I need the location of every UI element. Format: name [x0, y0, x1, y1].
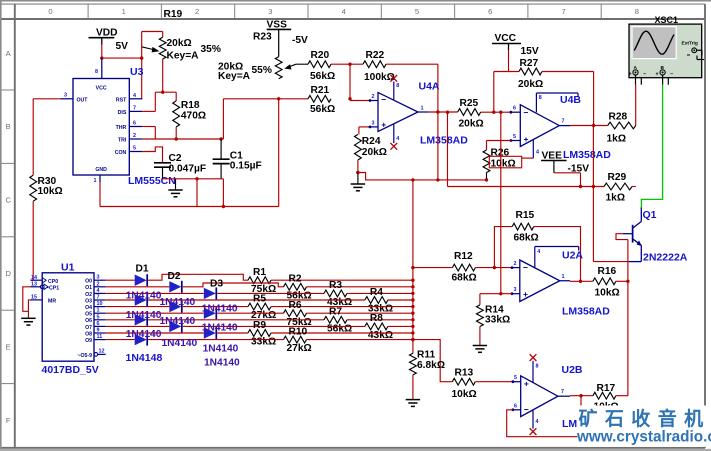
svg-text:R28: R28: [609, 111, 628, 122]
ground under R11: [406, 399, 420, 401]
resistor R24 20k to ground: [358, 127, 360, 134]
svg-text:THR: THR: [116, 125, 127, 131]
wire scope B to Q1 collector (green): [641, 85, 662, 208]
svg-text:6: 6: [488, 7, 492, 16]
ground under R24: [357, 173, 359, 185]
wire R20-R22 node: [331, 63, 363, 65]
U1 input pins CP0 ~CP1 MR: [31, 279, 43, 281]
svg-text:27kΩ: 27kΩ: [287, 343, 312, 354]
wire U1 O5 to D6: [106, 312, 204, 314]
U4B power stub pin4 to VEE: [532, 140, 534, 159]
watermark crystalradio: [578, 406, 711, 447]
wire R24 node to mid rail: [358, 173, 487, 180]
resistor R21 56k: [308, 95, 331, 102]
svg-text:VEE: VEE: [542, 150, 563, 161]
svg-text:35%: 35%: [201, 44, 221, 55]
wire U1 O2 to D3: [106, 292, 204, 294]
resistor R29 1k: [604, 183, 632, 190]
svg-text:1: 1: [94, 178, 97, 184]
svg-text:R3: R3: [329, 280, 342, 291]
svg-text:LM358AD: LM358AD: [563, 149, 611, 161]
label box around R26 value: [489, 156, 521, 168]
wire VEE to net: [554, 172, 581, 174]
wire R27 to U4B output: [542, 71, 594, 73]
svg-text:O3: O3: [85, 298, 92, 304]
resistor R27 20k: [519, 68, 542, 75]
svg-text:XSC1: XSC1: [655, 15, 679, 25]
diode D5 1N4140: [169, 301, 181, 312]
svg-text:1kΩ: 1kΩ: [606, 192, 626, 203]
svg-text:6: 6: [514, 403, 517, 409]
svg-text:U2B: U2B: [562, 364, 583, 376]
node bus row 0: [411, 279, 414, 282]
wire ~CP1 and MR to ground: [23, 287, 31, 312]
svg-text:D: D: [5, 269, 11, 278]
svg-text:CON: CON: [115, 150, 127, 156]
resistor R11 6.8k: [412, 340, 414, 354]
wire U1 O7 to D8: [106, 325, 170, 327]
svg-text:2: 2: [514, 261, 517, 267]
svg-text:−: −: [523, 263, 528, 273]
svg-text:O2: O2: [85, 292, 92, 298]
svg-text:R11: R11: [417, 349, 435, 360]
R23 wiper arrow: [296, 63, 308, 65]
svg-text:R10: R10: [289, 326, 308, 337]
svg-text:O9: O9: [85, 338, 92, 344]
resistor R7 56kΩ: [324, 316, 347, 323]
svg-text:~O5-9: ~O5-9: [77, 353, 92, 359]
wire D4 to R4: [148, 299, 365, 301]
svg-text:U3: U3: [130, 66, 144, 78]
diode D3 1N4140: [204, 288, 216, 299]
svg-text:A: A: [634, 65, 638, 71]
resistor R25 20k: [458, 109, 481, 116]
wire R4 to summing bus: [388, 299, 413, 301]
svg-text:7: 7: [561, 389, 564, 395]
svg-text:4: 4: [537, 249, 540, 255]
svg-text:55%: 55%: [252, 65, 272, 76]
resistor R26 10k: [487, 140, 511, 142]
svg-text:10kΩ: 10kΩ: [452, 389, 477, 400]
svg-text:10: 10: [97, 301, 103, 307]
svg-text:U2A: U2A: [562, 250, 583, 262]
U4B input stubs: [511, 111, 520, 113]
svg-text:LM358AD: LM358AD: [420, 135, 468, 147]
resistor R9 33kΩ: [248, 330, 271, 337]
svg-text:2N2222A: 2N2222A: [643, 251, 688, 263]
svg-text:7: 7: [97, 295, 100, 301]
svg-text:R21: R21: [311, 85, 330, 96]
svg-text:33kΩ: 33kΩ: [251, 337, 276, 348]
svg-text:B: B: [6, 122, 11, 131]
svg-text:R29: R29: [608, 172, 627, 183]
diode D9 1N4140: [204, 327, 216, 338]
resistor R6 75kΩ: [284, 310, 307, 317]
svg-text:R17: R17: [597, 383, 616, 394]
svg-text:2: 2: [97, 281, 100, 287]
svg-text:O5: O5: [85, 312, 92, 318]
wire D1 to R1 (jog up): [148, 274, 248, 280]
resistor R5 27kΩ: [248, 303, 271, 310]
svg-text:1N4140: 1N4140: [204, 358, 240, 369]
svg-text:VCC: VCC: [96, 85, 107, 91]
power VCC 15V: [492, 43, 521, 45]
svg-text:4: 4: [133, 93, 136, 99]
wire R28 to scope channel A: [635, 85, 637, 126]
wire D6 to R6: [217, 312, 283, 314]
wire D7 to R7: [148, 319, 324, 321]
svg-text:+: +: [381, 120, 386, 130]
svg-text:−: −: [524, 404, 529, 414]
svg-text:MR: MR: [48, 299, 56, 305]
wire base notch to R16/R17 bus: [616, 234, 628, 240]
svg-text:1N4140: 1N4140: [126, 310, 162, 321]
svg-text:14: 14: [31, 275, 37, 281]
svg-text:E: E: [6, 342, 11, 351]
svg-text:1: 1: [97, 308, 100, 314]
svg-text:8: 8: [95, 69, 98, 75]
svg-text:12: 12: [99, 349, 105, 355]
power VSS -5V: [267, 28, 292, 30]
svg-text:矿石收音机: 矿石收音机: [579, 407, 711, 430]
svg-text:3: 3: [268, 7, 272, 16]
svg-text:15: 15: [31, 295, 37, 301]
svg-text:R7: R7: [329, 307, 342, 318]
resistor R28 1k: [608, 122, 636, 129]
U2A output: [560, 280, 570, 282]
base stub: [623, 233, 633, 235]
sheet border frame: [0, 0, 711, 2]
svg-text:R8: R8: [370, 313, 383, 324]
svg-text:F: F: [6, 416, 11, 425]
svg-text:20kΩ: 20kΩ: [167, 38, 192, 49]
node bus row 5: [411, 312, 414, 315]
svg-text:B: B: [661, 65, 665, 71]
svg-text:8: 8: [635, 7, 639, 16]
svg-text:1kΩ: 1kΩ: [607, 133, 627, 144]
svg-text:5: 5: [513, 134, 516, 140]
resistor R30 10k: [30, 175, 37, 201]
U2A power stub pin8: [534, 247, 536, 268]
svg-text:20kΩ: 20kΩ: [362, 147, 387, 158]
svg-text:1N4140: 1N4140: [203, 343, 239, 354]
svg-text:R6: R6: [289, 300, 302, 311]
svg-text:−: −: [381, 95, 386, 105]
svg-text:D3: D3: [210, 278, 223, 289]
svg-text:VDD: VDD: [96, 28, 118, 39]
wire R22 feedback to U4A output: [386, 63, 438, 65]
svg-text:R13: R13: [455, 367, 474, 378]
svg-text:2: 2: [195, 7, 199, 16]
svg-text:9: 9: [97, 328, 100, 334]
wire THR tied to TRI: [142, 126, 155, 128]
svg-text:4017BD_5V: 4017BD_5V: [42, 364, 99, 376]
op counter U1 4017BD_5V box: [42, 273, 94, 361]
svg-text:R22: R22: [366, 50, 385, 61]
wire U1 O6 to D7: [106, 319, 135, 321]
node bus row 6: [411, 318, 414, 321]
wire OUT of 555 down left: [33, 98, 60, 100]
svg-text:LM555CN: LM555CN: [128, 175, 176, 187]
wire summing bus vertical: [412, 180, 414, 340]
U4A power pin stubs with X: [393, 82, 395, 101]
wire U2B feedback loop: [507, 396, 581, 437]
svg-text:1N4140: 1N4140: [160, 316, 196, 327]
svg-text:5: 5: [415, 7, 419, 16]
node bus row 8: [411, 331, 414, 334]
svg-text:10kΩ: 10kΩ: [38, 186, 63, 197]
ground under C2: [175, 179, 177, 190]
wire D9 to R9: [217, 332, 248, 334]
diode D8 1N4140: [169, 321, 181, 332]
wire D3 to R3: [217, 292, 324, 294]
svg-text:R24: R24: [362, 136, 381, 147]
wire D8 to R8: [183, 325, 365, 327]
svg-text:6: 6: [133, 121, 136, 127]
wire R23 bottom vertical: [278, 99, 280, 207]
svg-text:O6: O6: [85, 318, 92, 324]
svg-text:R25: R25: [460, 98, 479, 109]
U1 output pin stubs O0-O9: [94, 279, 106, 281]
diode D1 1N4140: [135, 275, 147, 286]
svg-text:R23: R23: [253, 32, 272, 43]
wire R1 to summing bus: [271, 279, 413, 281]
capacitor C2 0.047uF: [154, 162, 171, 164]
svg-text:4: 4: [97, 288, 100, 294]
resistor R10 27kΩ: [284, 336, 307, 343]
svg-text:20kΩ: 20kΩ: [459, 118, 484, 129]
resistor R15 68k feedback: [512, 223, 534, 230]
svg-text:56kΩ: 56kΩ: [310, 71, 335, 82]
wire U1 O0 to D1: [106, 279, 135, 281]
555 right pin stubs: [129, 98, 142, 100]
svg-text:R26: R26: [491, 148, 510, 159]
resistor R22 100k: [363, 61, 386, 68]
svg-text:O1: O1: [85, 285, 92, 291]
svg-text:6: 6: [97, 321, 100, 327]
node bus row 9: [411, 338, 414, 341]
svg-text:O8: O8: [85, 331, 92, 337]
svg-text:R19: R19: [164, 9, 183, 20]
svg-text:3: 3: [97, 275, 100, 281]
U2B output: [558, 395, 570, 397]
svg-text:68kΩ: 68kΩ: [514, 233, 539, 244]
pin 1 GND stub: [99, 175, 101, 182]
wire R19 bottom to DIS/R18 net: [162, 59, 164, 92]
svg-text:68kΩ: 68kΩ: [452, 273, 477, 284]
pin 8 VCC stub: [101, 58, 103, 78]
svg-text:D2: D2: [168, 271, 181, 282]
svg-text:6: 6: [513, 106, 516, 112]
resistor R17 10k: [593, 392, 616, 399]
wire D5 to R5: [183, 306, 248, 308]
wire R9 to summing bus: [271, 332, 413, 334]
svg-text:O7: O7: [85, 325, 92, 331]
svg-text:11: 11: [97, 334, 103, 340]
U4B power stub pin8: [535, 93, 537, 112]
svg-text:R12: R12: [454, 251, 473, 262]
svg-text:1: 1: [421, 106, 424, 112]
svg-text:4: 4: [536, 419, 539, 425]
wire DIS to R18/R19 node: [142, 110, 155, 112]
resistor R13 10k: [452, 378, 475, 385]
svg-text:1N4140: 1N4140: [160, 297, 196, 308]
diode D7 1N4140: [135, 314, 147, 325]
node bus row 7: [411, 325, 414, 328]
svg-text:1N4140: 1N4140: [162, 338, 198, 349]
svg-text:8: 8: [536, 364, 539, 370]
wire R10 to summing bus: [307, 339, 413, 341]
wire CON to C2: [142, 147, 162, 163]
wire bus bottom to R13 branch: [413, 340, 452, 382]
resistor R3 43kΩ: [324, 290, 347, 297]
svg-text:5: 5: [97, 314, 100, 320]
svg-text:OUT: OUT: [77, 98, 89, 104]
svg-text:GND: GND: [95, 167, 107, 173]
power VDD 5V: [89, 37, 115, 39]
svg-text:6.8kΩ: 6.8kΩ: [417, 360, 445, 371]
svg-text:R4: R4: [370, 287, 383, 298]
svg-text:2: 2: [133, 133, 136, 139]
U2B power stubs with X: [532, 361, 534, 382]
svg-text:-5V: -5V: [292, 35, 308, 46]
svg-text:3: 3: [372, 120, 375, 126]
U4B output: [559, 125, 570, 127]
U1 pin ~O5-9 stub: [94, 353, 98, 357]
svg-text:5: 5: [514, 375, 517, 381]
column labels 0-8: [87, 4, 89, 19]
svg-text:0: 0: [48, 7, 52, 16]
svg-text:R15: R15: [516, 210, 535, 221]
svg-text:1: 1: [562, 274, 565, 280]
svg-text:1: 1: [122, 7, 126, 16]
svg-text:Key=A: Key=A: [167, 50, 200, 61]
wire R6 to summing bus: [307, 312, 413, 314]
svg-text:3: 3: [64, 93, 67, 99]
U4A input stubs: [350, 100, 370, 102]
potentiometer R23 20k Key=A 55%: [275, 57, 282, 79]
svg-text:15V: 15V: [521, 46, 539, 57]
U2B input stubs: [513, 381, 521, 383]
node bus row 4: [411, 305, 414, 308]
svg-text:C: C: [5, 196, 11, 205]
svg-text:R16: R16: [598, 266, 617, 277]
svg-text:TRI: TRI: [118, 138, 127, 144]
svg-text:VCC: VCC: [495, 33, 517, 44]
node VDD junction: [100, 56, 103, 59]
svg-text:3: 3: [514, 287, 517, 293]
svg-text:VSS: VSS: [267, 20, 288, 31]
svg-text:D1: D1: [136, 264, 149, 275]
svg-text:R27: R27: [520, 58, 539, 69]
svg-text:1N4140: 1N4140: [126, 291, 162, 302]
wire U2A plus input network: [480, 293, 512, 295]
svg-text:56kΩ: 56kΩ: [310, 104, 335, 115]
svg-text:+: +: [524, 378, 529, 388]
scope waveform: [634, 31, 674, 54]
svg-text:4: 4: [342, 7, 346, 16]
capacitor C1 0.15uF: [220, 139, 222, 159]
diode D10 1N4140: [135, 334, 147, 345]
resistor R1 75kΩ: [248, 277, 271, 284]
diode D6 1N4140: [204, 308, 216, 319]
power VEE -15V: [541, 160, 567, 162]
svg-text:8: 8: [396, 83, 399, 89]
svg-text:R5: R5: [253, 293, 266, 304]
pin 3 OUT stub: [61, 98, 74, 100]
svg-text:DIS: DIS: [118, 110, 127, 116]
wire R25 to U4B inverting input: [481, 111, 511, 113]
svg-text:−: −: [643, 72, 646, 78]
svg-text:470Ω: 470Ω: [181, 110, 206, 121]
svg-text:RST: RST: [116, 97, 127, 103]
svg-text:R9: R9: [253, 320, 266, 331]
scope terminal B: [660, 70, 665, 75]
svg-text:O0: O0: [85, 279, 92, 285]
svg-text:2: 2: [372, 94, 375, 100]
node bus row 3: [411, 298, 414, 301]
U4A output: [418, 111, 428, 113]
resistor R20 56k: [308, 61, 331, 68]
svg-text:R2: R2: [289, 274, 302, 285]
svg-text:U1: U1: [61, 262, 75, 274]
svg-text:Q1: Q1: [643, 209, 657, 221]
svg-text:www.crystalradio.cn: www.crystalradio.cn: [576, 429, 711, 446]
wire R3 to summing bus: [347, 292, 413, 294]
wire R7 to summing bus: [347, 319, 413, 321]
wire R5 to summing bus: [271, 306, 413, 308]
wire output node to R29 row: [447, 112, 449, 186]
svg-text:1N4140: 1N4140: [202, 323, 238, 334]
svg-text:0.15µF: 0.15µF: [230, 160, 262, 171]
svg-text:4: 4: [396, 136, 399, 142]
svg-text:R1: R1: [253, 267, 266, 278]
wire emitter to U4B output net: [593, 261, 628, 263]
wire U1 O4 to D5: [106, 306, 170, 308]
svg-text:O4: O4: [85, 305, 92, 311]
svg-text:+: +: [629, 72, 632, 78]
ground under R14: [473, 345, 487, 347]
svg-text:5V: 5V: [116, 41, 129, 52]
svg-text:5: 5: [133, 146, 136, 152]
wire VCC to R27: [508, 50, 510, 72]
wire C2/C1 bottom rail: [163, 178, 224, 180]
diode D4 1N4140: [135, 294, 147, 305]
wire R8 to summing bus: [388, 325, 413, 327]
svg-text:U4A: U4A: [419, 81, 440, 93]
node bus row 2: [411, 292, 414, 295]
svg-text:+: +: [524, 134, 529, 144]
svg-text:1N4140: 1N4140: [202, 303, 238, 314]
svg-text:8: 8: [539, 95, 542, 101]
wire 555 GND rail: [99, 182, 101, 207]
svg-text:20kΩ: 20kΩ: [518, 79, 543, 90]
wire TRI net: [142, 138, 223, 140]
wire R30 to U1 clock: [32, 201, 34, 280]
svg-text:10kΩ: 10kΩ: [595, 287, 620, 298]
svg-text:Key=A: Key=A: [218, 71, 251, 82]
svg-text:+: +: [656, 72, 659, 78]
resistor R2 56kΩ: [284, 283, 307, 290]
wire D2 to R2 (jog up): [183, 283, 284, 287]
svg-text:−: −: [524, 107, 529, 117]
resistor R16 10k: [593, 278, 616, 285]
svg-text:R20: R20: [311, 50, 330, 61]
svg-text:7: 7: [133, 106, 136, 112]
wire U1 O1 to D2: [106, 286, 170, 288]
wire D10 to R10: [148, 339, 283, 341]
wire VDD to R19/RST net: [101, 45, 103, 59]
